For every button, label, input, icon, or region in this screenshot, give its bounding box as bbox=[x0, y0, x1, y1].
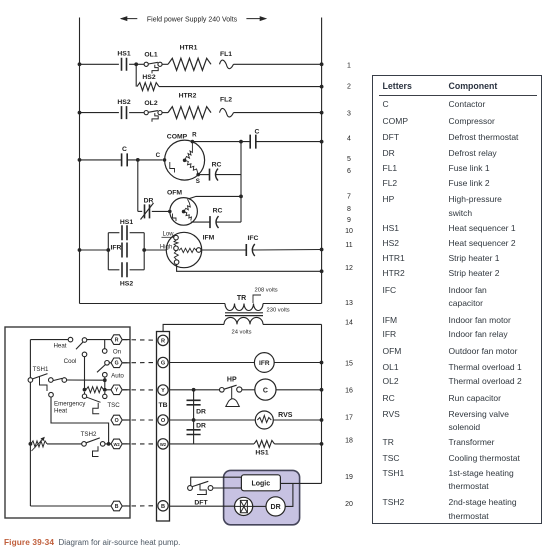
dashed wire B bbox=[123, 505, 157, 507]
switch emergency heat bbox=[49, 392, 111, 445]
svg-text:DR: DR bbox=[271, 504, 281, 511]
svg-text:DR: DR bbox=[144, 198, 154, 205]
wire vertical bus x241 bbox=[239, 142, 243, 223]
svg-text:COMP: COMP bbox=[167, 134, 188, 141]
resistor HTR1 bbox=[168, 45, 211, 71]
wire 24v right rail bbox=[321, 324, 323, 483]
capacitor C line 4 bbox=[250, 129, 259, 149]
svg-text:HP: HP bbox=[227, 376, 237, 383]
svg-text:DFT: DFT bbox=[194, 499, 208, 506]
switch TSH2 second stage heat bbox=[81, 431, 111, 457]
resistor cooling anticipator bbox=[83, 387, 111, 393]
switch Cool bbox=[64, 352, 87, 389]
terminal R hex bbox=[111, 335, 130, 345]
wire rung 1 bbox=[78, 62, 324, 66]
svg-text:4: 4 bbox=[347, 136, 351, 143]
svg-text:HTR1: HTR1 bbox=[180, 45, 198, 52]
svg-text:13: 13 bbox=[345, 300, 353, 307]
svg-text:HS2: HS2 bbox=[142, 74, 155, 81]
wire left power rail L1 bbox=[79, 18, 81, 304]
svg-text:HS1: HS1 bbox=[117, 51, 130, 58]
fuse link FL1 bbox=[220, 51, 234, 69]
svg-text:Emergency: Emergency bbox=[54, 400, 86, 407]
switch TSC cooling thermostat bbox=[82, 392, 120, 414]
fuse link FL2 bbox=[220, 97, 234, 117]
svg-text:OL1: OL1 bbox=[144, 52, 157, 59]
svg-text:Logic: Logic bbox=[251, 481, 270, 488]
terminal G hex bbox=[111, 358, 130, 368]
svg-text:W2: W2 bbox=[160, 442, 167, 447]
svg-text:RVS: RVS bbox=[278, 412, 293, 419]
terminal B hex bbox=[111, 501, 130, 511]
terminal O strip bbox=[158, 415, 168, 425]
wire right power rail L2 bbox=[321, 18, 323, 304]
svg-text:Field power Supply 240 Volts: Field power Supply 240 Volts bbox=[147, 16, 238, 23]
svg-text:11: 11 bbox=[345, 242, 352, 249]
svg-text:C: C bbox=[255, 129, 260, 136]
switch system Heat bbox=[53, 337, 86, 349]
contact DR normally closed bbox=[141, 198, 154, 220]
wire line 12 bbox=[177, 264, 324, 273]
switch HP high pressure bbox=[220, 376, 242, 406]
switch TSH1 first stage heat bbox=[28, 366, 107, 392]
dashed wire G bbox=[123, 362, 157, 364]
svg-text:230 volts: 230 volts bbox=[267, 308, 290, 314]
svg-text:Cool: Cool bbox=[64, 358, 77, 365]
wire line 13 left bbox=[80, 303, 226, 305]
svg-text:19: 19 bbox=[345, 474, 353, 481]
svg-text:R: R bbox=[192, 132, 197, 139]
wire line 20 bbox=[170, 505, 267, 507]
svg-text:HS2: HS2 bbox=[120, 281, 133, 288]
switch fan On bbox=[102, 340, 121, 356]
wire rung 3 bbox=[78, 111, 324, 115]
svg-text:6: 6 bbox=[347, 168, 351, 175]
svg-text:HS2: HS2 bbox=[117, 99, 130, 106]
svg-text:High: High bbox=[160, 244, 172, 250]
svg-text:FL2: FL2 bbox=[220, 97, 232, 104]
relay coil DR defrost bbox=[266, 497, 285, 516]
wire DFT right to logic bbox=[213, 487, 241, 489]
svg-text:G: G bbox=[115, 361, 119, 367]
terminal W2 strip bbox=[158, 439, 168, 449]
svg-text:W2: W2 bbox=[113, 442, 120, 447]
svg-text:9: 9 bbox=[347, 217, 351, 224]
wire B line bbox=[30, 505, 111, 507]
svg-text:3: 3 bbox=[347, 110, 351, 117]
wire line 9 bbox=[191, 221, 241, 223]
wire G line bbox=[109, 362, 111, 364]
svg-text:14: 14 bbox=[345, 320, 353, 327]
svg-text:Heat: Heat bbox=[53, 342, 66, 349]
coil HS2 heat sequencer bbox=[137, 74, 159, 91]
svg-text:OFM: OFM bbox=[167, 190, 182, 197]
svg-text:Heat: Heat bbox=[54, 407, 67, 414]
solenoid RVS reversing valve bbox=[255, 411, 292, 429]
wire line 18 bbox=[170, 442, 324, 446]
contact HS1 ifm bbox=[120, 219, 133, 240]
svg-text:B: B bbox=[115, 504, 119, 510]
terminal O hex bbox=[111, 415, 130, 425]
svg-text:HS1: HS1 bbox=[120, 219, 133, 226]
contact HS2 rung 3 bbox=[117, 99, 130, 119]
wire logic right to rail bbox=[280, 482, 321, 484]
svg-text:C: C bbox=[156, 152, 161, 159]
wire thermostat left bus bbox=[29, 340, 31, 506]
capacitor IFC bbox=[246, 235, 258, 256]
wire DFT left to logic bbox=[191, 477, 242, 485]
wire line 11 right bbox=[201, 248, 324, 252]
wire line 2 bbox=[159, 85, 324, 89]
label field power supply with arrows bbox=[120, 16, 267, 23]
switch fan Auto bbox=[103, 372, 125, 380]
resistor HTR2 bbox=[168, 93, 211, 119]
svg-text:HS1: HS1 bbox=[255, 450, 268, 457]
svg-text:FL1: FL1 bbox=[220, 51, 232, 58]
wire rung 5 bbox=[78, 158, 163, 162]
capacitor C rung 5 bbox=[122, 146, 128, 166]
motor indoor fan IFM bbox=[160, 231, 215, 267]
terminal Y hex bbox=[111, 385, 130, 395]
svg-text:5: 5 bbox=[347, 156, 351, 163]
contactor coil C bbox=[255, 379, 276, 400]
svg-text:R: R bbox=[161, 339, 165, 345]
svg-text:2: 2 bbox=[347, 84, 351, 91]
svg-text:On: On bbox=[113, 348, 122, 355]
dashed wire W2 bbox=[123, 443, 157, 445]
svg-text:TSH2: TSH2 bbox=[81, 431, 97, 438]
terminal B strip bbox=[158, 501, 168, 511]
svg-text:TSC: TSC bbox=[107, 402, 120, 409]
transformer TR bbox=[224, 288, 290, 336]
terminal G strip bbox=[158, 357, 168, 367]
svg-text:24 volts: 24 volts bbox=[232, 330, 252, 336]
dashed wire O bbox=[123, 419, 157, 421]
svg-text:RC: RC bbox=[212, 162, 222, 169]
switch DFT defrost thermostat bbox=[188, 481, 213, 506]
svg-text:S: S bbox=[196, 178, 200, 185]
parallel contact box IFR HS1 HS2 bbox=[108, 233, 144, 270]
wire DR coil to logic wire bbox=[285, 483, 293, 506]
svg-text:Y: Y bbox=[161, 388, 165, 394]
svg-text:1: 1 bbox=[347, 62, 351, 69]
motor compressor COMP bbox=[156, 132, 205, 185]
wire rung 11 bbox=[78, 248, 174, 252]
dashed wire Y bbox=[123, 389, 157, 391]
svg-text:Y: Y bbox=[115, 388, 119, 394]
wire DR branch bbox=[138, 160, 170, 212]
wire R line bbox=[30, 339, 111, 341]
wire line 16 bbox=[170, 388, 324, 392]
svg-text:C: C bbox=[122, 146, 127, 153]
module defrost board bbox=[224, 470, 300, 524]
svg-text:DR: DR bbox=[196, 409, 206, 416]
overload OL2 bbox=[144, 100, 162, 122]
terminal strip TB bbox=[157, 332, 170, 522]
box Logic bbox=[241, 475, 280, 491]
motor outdoor fan OFM bbox=[167, 190, 197, 226]
resistor HS1 heat sequencer coil bbox=[254, 440, 275, 456]
svg-text:IFR: IFR bbox=[111, 245, 122, 252]
overload OL1 bbox=[144, 52, 162, 74]
svg-text:B: B bbox=[161, 504, 165, 510]
svg-text:8: 8 bbox=[347, 206, 351, 213]
svg-text:O: O bbox=[115, 418, 119, 424]
svg-text:IFM: IFM bbox=[203, 235, 215, 242]
label TB bbox=[158, 402, 167, 409]
wire OFM top line 7 bbox=[188, 196, 242, 199]
terminal R strip bbox=[158, 335, 168, 345]
svg-text:TR: TR bbox=[237, 295, 246, 302]
svg-text:C: C bbox=[263, 387, 268, 394]
resistor heat anticipator bbox=[29, 437, 82, 451]
svg-text:16: 16 bbox=[345, 388, 353, 395]
contact IFR ifm bbox=[111, 243, 128, 258]
contact DR lower bbox=[187, 420, 207, 444]
svg-text:17: 17 bbox=[345, 415, 353, 422]
svg-text:R: R bbox=[115, 338, 119, 344]
triac bbox=[235, 497, 253, 515]
svg-text:20: 20 bbox=[345, 501, 353, 508]
wire line 4 bbox=[192, 140, 323, 144]
wire line 15 bbox=[170, 361, 324, 365]
svg-text:Low: Low bbox=[162, 231, 174, 237]
contact HS2 ifm bbox=[120, 262, 133, 287]
contact HS1 rung 1 bbox=[117, 51, 130, 71]
svg-text:TB: TB bbox=[158, 402, 167, 409]
svg-text:HTR2: HTR2 bbox=[179, 93, 197, 100]
wire secondary left to R bbox=[163, 324, 224, 334]
labels ladder line numbers 1-20 bbox=[345, 62, 353, 508]
svg-text:DR: DR bbox=[196, 422, 206, 429]
svg-text:208 volts: 208 volts bbox=[255, 288, 278, 294]
svg-text:10: 10 bbox=[345, 228, 353, 235]
svg-text:RC: RC bbox=[213, 208, 223, 215]
svg-text:TSH1: TSH1 bbox=[33, 366, 49, 373]
wire HS2 branch bbox=[135, 64, 137, 86]
svg-text:G: G bbox=[161, 361, 165, 367]
svg-text:Auto: Auto bbox=[111, 372, 124, 379]
svg-text:18: 18 bbox=[345, 438, 353, 445]
svg-text:15: 15 bbox=[345, 360, 353, 367]
run capacitor RC comp bbox=[210, 162, 222, 181]
terminal W2 hex bbox=[111, 439, 130, 449]
switch fan blade bbox=[97, 361, 109, 373]
thermostat enclosure box bbox=[5, 327, 130, 518]
wire line 6 bbox=[198, 174, 241, 176]
run capacitor RC ofm bbox=[210, 208, 222, 229]
contact DR upper bbox=[187, 390, 207, 420]
svg-text:O: O bbox=[161, 418, 166, 424]
svg-text:IFC: IFC bbox=[248, 235, 259, 242]
node junction HS2 branch bbox=[134, 62, 138, 66]
dashed wire R bbox=[123, 339, 157, 342]
svg-text:OL2: OL2 bbox=[144, 100, 157, 107]
relay coil IFR bbox=[254, 353, 274, 373]
svg-text:7: 7 bbox=[347, 194, 351, 201]
wire secondary right bbox=[263, 323, 322, 325]
terminal Y strip bbox=[158, 385, 168, 395]
svg-text:IFR: IFR bbox=[259, 360, 270, 367]
wire line 17 bbox=[170, 418, 324, 422]
wire line 13 right bbox=[263, 303, 322, 305]
svg-text:12: 12 bbox=[345, 265, 353, 272]
